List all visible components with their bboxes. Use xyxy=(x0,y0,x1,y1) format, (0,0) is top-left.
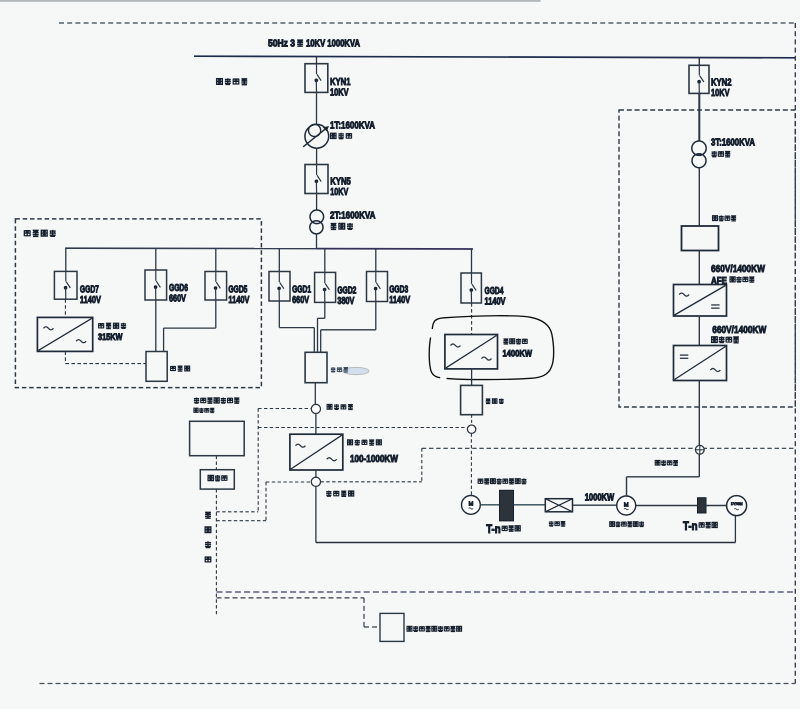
dashed comm vertical x266 xyxy=(265,482,267,521)
label 操作台及计算机 xyxy=(194,397,199,403)
gearbox 齿轮箱 xyxy=(545,499,572,512)
breaker GGD4 1140V xyxy=(471,248,473,273)
wire KYN2 to 3T xyxy=(698,93,700,141)
svg-text:1140V: 1140V xyxy=(485,297,506,308)
label 接线柜 3 xyxy=(486,399,491,404)
wire 2T to LV bus xyxy=(316,234,318,249)
dynamometer circle xyxy=(727,496,747,516)
dashed frame right line xyxy=(794,23,796,684)
label 接线柜 1 xyxy=(171,366,176,371)
svg-text:10KV 1000KVA: 10KV 1000KVA xyxy=(306,38,360,49)
svg-text:10KV: 10KV xyxy=(330,186,348,198)
wire 315KW converter to junction cabinet (dashed) xyxy=(64,351,66,363)
wire filter to AFE xyxy=(698,251,700,285)
computer console box xyxy=(190,421,245,455)
transformer 3T xyxy=(692,141,706,155)
svg-text:1140V: 1140V xyxy=(80,295,101,306)
wire GGD5 to junction cabinet 1 xyxy=(215,300,217,328)
junction cabinet 3 (接线柜) xyxy=(461,385,483,414)
wire inverter down to measurement cross xyxy=(698,381,700,446)
server box 服务器 xyxy=(200,470,234,489)
junction cabinet 1 (接线柜) xyxy=(146,352,167,382)
measurement point 变频测量 (circle) xyxy=(311,477,320,486)
shaft M2 to T-n sensor 2 xyxy=(636,505,698,507)
label 齿轮箱 xyxy=(549,521,554,526)
svg-text:660V/1400KW: 660V/1400KW xyxy=(712,324,766,336)
wire GGD7 to 315KW converter (dashed) xyxy=(64,299,66,317)
dashed measurement line y448 xyxy=(422,447,796,449)
svg-text:1140V: 1140V xyxy=(389,295,410,306)
shaft sensor1 to gearbox xyxy=(514,504,546,506)
svg-text:GGD4: GGD4 xyxy=(485,286,504,297)
breaker GGD5 1140V xyxy=(215,248,217,271)
breaker GGD6 660V xyxy=(155,248,157,270)
label 被测变频器 xyxy=(348,440,353,445)
wire AFE to inverter xyxy=(698,316,700,346)
breaker GGD7 1140V xyxy=(65,248,67,271)
dashed comm y521 xyxy=(216,520,266,522)
svg-text:1000KW: 1000KW xyxy=(585,492,615,503)
wire cross to M2 feed xyxy=(698,454,700,477)
communication bus dashed drop xyxy=(215,489,217,617)
label 监控系统 xyxy=(194,408,198,412)
dashed frame top line xyxy=(59,22,795,24)
dashed comm vertical x258 xyxy=(257,409,259,512)
dashed line y598 to cooling xyxy=(217,597,365,599)
dashed comm line y427 to GGD4 chain xyxy=(258,427,467,429)
label 变频测量 right xyxy=(655,460,660,465)
label 被测永磁同步电机 xyxy=(478,479,483,484)
wire KYN5 to 2T xyxy=(316,194,318,211)
junction cabinet 2 (接线柜) xyxy=(305,352,327,382)
dashed drop to cooling box xyxy=(363,598,365,627)
svg-text:660V: 660V xyxy=(292,295,309,306)
breaker KYN1 xyxy=(305,64,328,93)
dashed box phase-3 equipment xyxy=(15,219,261,388)
converter under test 被测变频器 100-1000KW xyxy=(290,434,343,470)
node: LV distribution bus xyxy=(65,247,316,249)
dashed junction 3 to measuring circle xyxy=(471,415,473,425)
label phase-1 equipment (一期设备) xyxy=(217,79,223,85)
svg-text:50Hz 3: 50Hz 3 xyxy=(268,38,295,49)
svg-text:10KV: 10KV xyxy=(330,87,349,99)
wire to converter under test xyxy=(315,414,317,435)
voltage regulator 1T xyxy=(305,124,329,148)
svg-text:M: M xyxy=(624,502,629,508)
wire KYN1 to 1T xyxy=(316,92,318,124)
wire console to server (dashed) xyxy=(215,456,217,470)
wire dynamometer to loop xyxy=(734,516,736,543)
shaft gearbox to M2 xyxy=(573,504,617,506)
wire GGD3 to junction cabinet 2 xyxy=(375,302,377,330)
label 变频电源 1400KW xyxy=(503,339,508,344)
svg-text:M: M xyxy=(469,502,474,508)
measurement circle on GGD4 chain xyxy=(467,425,475,433)
dashed from 变频测量 east xyxy=(321,481,422,483)
svg-text:2T:1600KVA: 2T:1600KVA xyxy=(330,209,376,221)
dashed down to motor M1 xyxy=(470,433,472,495)
svg-text:660V: 660V xyxy=(169,294,186,305)
dashed vertical x422 xyxy=(421,448,423,482)
filter unit box 滤波单元 xyxy=(682,226,719,251)
dashed box AFE unit xyxy=(619,110,795,407)
svg-text:660V/1400KW: 660V/1400KW xyxy=(711,263,765,275)
label 通信总线 (vertical) xyxy=(205,512,211,518)
label 变频测量 xyxy=(326,491,331,497)
wire bus to KYN1 xyxy=(316,57,318,64)
inverter unit box xyxy=(674,346,727,381)
label 接线柜 2 xyxy=(331,367,336,372)
wire 3T to filter xyxy=(698,168,700,226)
long dashed line y592 xyxy=(217,591,796,593)
svg-text:T-n: T-n xyxy=(486,524,501,536)
breaker KYN2 xyxy=(689,65,709,93)
svg-text:GGD6: GGD6 xyxy=(169,283,188,294)
svg-text:GGD7: GGD7 xyxy=(80,284,99,295)
svg-text:T-n: T-n xyxy=(683,521,698,533)
motor M1 被测永磁同步电机 xyxy=(462,496,481,515)
breaker KYN5 xyxy=(305,165,328,194)
wire 1T to KYN5 xyxy=(316,148,318,164)
svg-text:GGD3: GGD3 xyxy=(389,285,408,296)
breaker GGD3 1140V xyxy=(375,248,377,271)
dashed comm line to 工频测量 xyxy=(258,408,311,410)
svg-text:DY/GM: DY/GM xyxy=(731,501,743,506)
wire 变频测量 down to test loop xyxy=(315,486,317,542)
wire bus to KYN2 xyxy=(698,58,700,66)
wire GGD1 to junction cabinet 2 xyxy=(278,301,280,328)
wire GGD2 to junction cabinet 2 xyxy=(324,302,326,318)
test loop bottom wire xyxy=(316,542,736,544)
wire GGD4 to 1400KW converter (dashed) xyxy=(471,303,473,335)
svg-text:380V: 380V xyxy=(337,296,354,307)
label 工频测量 xyxy=(327,404,332,409)
svg-text:GGD1: GGD1 xyxy=(292,285,311,296)
dashed comm to 变频测量 xyxy=(266,481,311,483)
svg-text:315KW: 315KW xyxy=(98,332,123,343)
breaker GGD2 380V xyxy=(324,248,326,272)
converter 315KW (变频电源) xyxy=(37,317,92,351)
dashed comm to server bus y512 xyxy=(216,511,258,513)
hand-drawn highlight blob xyxy=(432,316,553,380)
AFE rectifier box xyxy=(674,285,727,317)
T-n sensor 2 (black) xyxy=(698,498,707,513)
shaft sensor2 to dynamometer xyxy=(706,505,727,507)
node: incoming 10KV bus xyxy=(194,56,795,58)
label 冷却水、润滑油系统 xyxy=(407,626,412,631)
wire 1400KW converter to junction cabinet 3 xyxy=(471,369,473,386)
wire converter to 变频测量 xyxy=(315,470,317,477)
motor M2 负载异步电机 xyxy=(617,496,636,515)
breaker GGD1 660V xyxy=(278,248,280,271)
cooling system box xyxy=(380,613,404,641)
label 负载异步电机 xyxy=(610,522,615,527)
measurement point 工频测量 (circle) xyxy=(311,404,320,413)
T-n sensor 1 (black) xyxy=(500,490,514,521)
svg-text:1400KW: 1400KW xyxy=(503,349,533,360)
converter 1400KW (变频电源) xyxy=(445,335,498,369)
svg-text:1140V: 1140V xyxy=(228,295,249,306)
svg-text:3T:1600KVA: 3T:1600KVA xyxy=(711,137,755,149)
svg-text:GGD5: GGD5 xyxy=(228,285,247,296)
label phase-3 equipment (三期设备) xyxy=(24,230,30,236)
shaft M1 to T-n sensor xyxy=(480,504,499,506)
wire GGD6 to junction cabinet 1 xyxy=(155,300,157,352)
wire junction cabinet 2 to measuring point xyxy=(314,383,316,405)
svg-text:1T:1600KVA: 1T:1600KVA xyxy=(330,119,375,131)
svg-text:GGD2: GGD2 xyxy=(337,285,356,296)
svg-text:100-1000KW: 100-1000KW xyxy=(350,454,398,465)
label 滤波单元 xyxy=(713,216,718,221)
dashed frame bottom line xyxy=(40,683,796,685)
measurement cross circle xyxy=(695,445,704,454)
label 变频电源 315KW xyxy=(99,323,104,328)
transformer 2T xyxy=(310,210,324,224)
svg-text:10KV: 10KV xyxy=(711,87,730,99)
scan top edge artifact xyxy=(0,0,540,1)
